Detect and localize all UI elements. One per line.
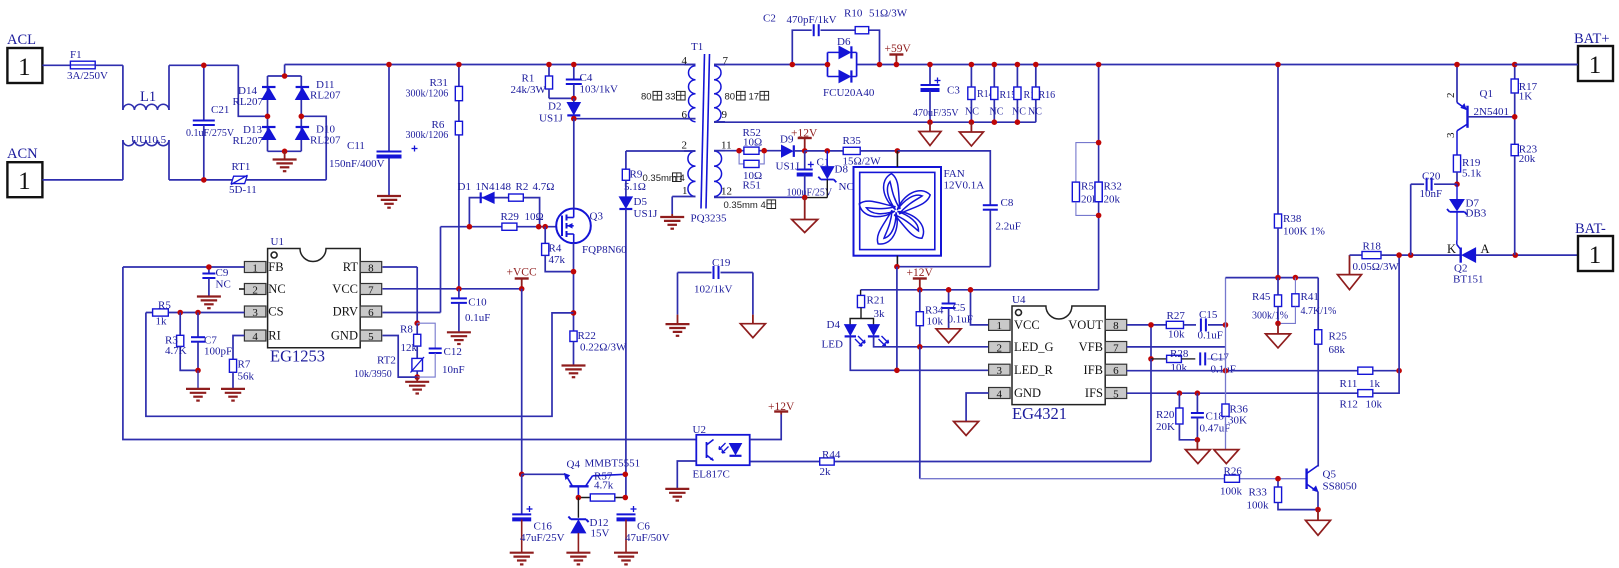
junction FAN top	[895, 148, 901, 154]
capacitor C4 103/1kV	[566, 65, 618, 99]
svg-text:C16: C16	[534, 521, 553, 533]
transformer T1 secondary winding	[714, 65, 725, 122]
svg-text:R10: R10	[844, 8, 863, 20]
diode D6 FCU20A40	[823, 36, 875, 99]
svg-text:0.1uF: 0.1uF	[948, 314, 973, 326]
capacitor C15 0.1uF	[1198, 309, 1226, 342]
ground C1	[792, 198, 818, 233]
svg-text:3: 3	[252, 307, 258, 319]
wire +12V rail	[861, 289, 1099, 291]
diode D7 DB3	[1447, 184, 1487, 240]
svg-text:10k: 10k	[927, 316, 944, 328]
svg-text:Q5: Q5	[1323, 469, 1337, 481]
svg-text:RL207: RL207	[310, 90, 341, 102]
junction R13 bottom	[1015, 119, 1021, 125]
wire GND pin5 to node B	[383, 336, 418, 378]
pin 4 RI	[244, 329, 280, 343]
svg-text:10nF: 10nF	[1420, 188, 1443, 200]
node ACL label	[7, 32, 36, 48]
diode D2 US1J	[539, 98, 580, 124]
svg-text:R5: R5	[158, 300, 171, 312]
diode D4 LED pair	[822, 319, 889, 351]
wire LED red cathode	[850, 336, 988, 370]
diode D1 1N4148	[458, 181, 540, 227]
svg-text:R44: R44	[822, 449, 841, 461]
node BAT- label	[1575, 221, 1606, 237]
value label 80 strands 33 turns	[641, 91, 685, 102]
wire fuse to L1	[95, 65, 123, 110]
junction R14 bottom	[969, 119, 975, 125]
svg-text:FQP8N60: FQP8N60	[582, 244, 627, 256]
svg-text:+VCC: +VCC	[507, 267, 537, 279]
svg-text:R4: R4	[549, 243, 562, 255]
wire R35 to C8	[897, 151, 990, 205]
wire Q5 emitter to ground	[1317, 492, 1319, 510]
svg-text:12V0.1A: 12V0.1A	[944, 180, 985, 192]
junction Q5 emitter node	[1315, 507, 1321, 513]
svg-text:EG1253: EG1253	[270, 347, 325, 366]
svg-text:4: 4	[997, 388, 1003, 400]
svg-text:10Ω: 10Ω	[743, 137, 762, 149]
svg-text:C4: C4	[580, 72, 593, 84]
resistor R52 10	[743, 127, 763, 154]
pin 3 LED_R	[989, 363, 1054, 377]
capacitor C2 470pF/1kV snubber	[763, 13, 880, 65]
junction R3 C7 bottom	[195, 368, 201, 374]
junction R14 top	[969, 62, 975, 68]
svg-text:24k/3W: 24k/3W	[511, 84, 547, 96]
svg-text:C17: C17	[1211, 352, 1230, 364]
resistor R51 10 parallel	[739, 151, 764, 192]
wire CS net	[146, 312, 245, 314]
svg-text:10nF: 10nF	[442, 364, 465, 376]
transistor Q4 MMBT5551	[564, 458, 640, 498]
junction Q4 base node	[519, 472, 525, 478]
ground U4 GND	[954, 422, 979, 436]
wire FAN bottom	[897, 256, 990, 267]
resistor R8 12k	[400, 323, 421, 354]
svg-text:R9: R9	[630, 169, 643, 181]
resistor R19 5.1k	[1453, 155, 1481, 184]
junction LED_R FAN join	[894, 368, 900, 374]
svg-text:80: 80	[641, 92, 652, 103]
svg-text:5: 5	[368, 331, 374, 343]
resistor R2 4.7	[509, 181, 555, 201]
svg-text:DB3: DB3	[1466, 208, 1487, 220]
svg-text:R21: R21	[867, 295, 885, 307]
svg-text:C20: C20	[1422, 171, 1441, 183]
pin 4	[682, 55, 688, 67]
svg-text:1: 1	[252, 262, 258, 274]
wire secondary return	[714, 121, 1036, 123]
wire T1 pin12 line	[714, 196, 827, 198]
capacitor C3 470uF/35V	[913, 65, 960, 123]
resistor R35 15/2W	[843, 135, 898, 168]
ground C9	[197, 297, 221, 309]
svg-text:1: 1	[18, 54, 31, 81]
wire opto collector to +12V	[750, 415, 782, 440]
pin 5 IFS	[1085, 386, 1127, 400]
svg-text:6: 6	[368, 307, 374, 319]
svg-text:0.35mm 4: 0.35mm 4	[724, 200, 766, 211]
resistor R23 20k	[1511, 144, 1538, 256]
svg-text:4: 4	[252, 331, 258, 343]
svg-text:BAT-: BAT-	[1575, 221, 1606, 237]
svg-text:SS8050: SS8050	[1323, 481, 1358, 493]
wire Q5 base net	[920, 478, 1307, 480]
svg-text:9: 9	[722, 109, 728, 121]
capacitor C11	[329, 65, 418, 197]
svg-text:56k: 56k	[238, 371, 255, 383]
junction +12V tick	[917, 287, 923, 293]
capacitor C6 47uF/50V	[617, 506, 670, 553]
junction R11 rail	[1396, 252, 1402, 258]
svg-text:D6: D6	[837, 36, 851, 48]
svg-text:4.7k: 4.7k	[594, 480, 614, 492]
junction node A	[414, 320, 420, 326]
junction R57 right	[623, 495, 629, 501]
svg-text:6: 6	[682, 109, 688, 121]
svg-text:R25: R25	[1329, 331, 1348, 343]
wire Q3 source chain	[573, 243, 575, 331]
junction C5 top	[946, 287, 952, 293]
resistor R25 68k	[1315, 330, 1348, 464]
junction R3 top	[177, 310, 183, 316]
pin 7 VCC	[332, 282, 381, 296]
wire Q5 collector	[1317, 464, 1319, 467]
junction C2 left	[790, 62, 796, 68]
wire opto cathode to ground	[677, 461, 696, 489]
svg-text:10Ω: 10Ω	[525, 211, 544, 223]
svg-text:1k: 1k	[1369, 378, 1381, 390]
junction R16 top	[1033, 62, 1039, 68]
svg-text:R26: R26	[1224, 466, 1243, 478]
junction R23 rail	[1513, 252, 1519, 258]
svg-text:R2: R2	[516, 181, 529, 193]
pin 1 VCC	[989, 318, 1040, 332]
svg-text:3: 3	[1445, 132, 1457, 138]
svg-text:1: 1	[997, 320, 1003, 332]
svg-text:C8: C8	[1001, 197, 1014, 209]
svg-text:VOUT: VOUT	[1068, 318, 1103, 332]
ground C10	[447, 332, 471, 344]
svg-text:LED_G: LED_G	[1014, 340, 1054, 354]
svg-text:R28: R28	[1170, 348, 1189, 360]
svg-text:R51: R51	[743, 180, 761, 192]
diode D13 RL207	[233, 124, 276, 147]
svg-text:R45: R45	[1252, 291, 1271, 303]
svg-text:MMBT5551: MMBT5551	[585, 458, 641, 470]
ground R18 left	[1338, 255, 1362, 290]
capacitor C12 10nF	[417, 323, 464, 377]
resistor R17 1K	[1511, 65, 1538, 145]
svg-text:VCC: VCC	[332, 282, 358, 296]
svg-text:1: 1	[1589, 52, 1602, 79]
junction R34 bottom	[917, 344, 923, 350]
junction VCC riser	[968, 287, 974, 293]
ground Q5	[1306, 510, 1331, 536]
pin 9	[722, 109, 728, 121]
diode D12 15V zener	[568, 498, 609, 553]
wire LED green cathode	[874, 336, 989, 346]
svg-text:ACL: ACL	[7, 32, 36, 48]
node ACN label	[7, 146, 38, 162]
junction C1 bottom	[802, 195, 808, 201]
svg-text:LED_R: LED_R	[1014, 363, 1054, 377]
svg-text:300k/1%: 300k/1%	[1252, 311, 1288, 322]
svg-text:0.1uF: 0.1uF	[1198, 330, 1223, 342]
svg-text:3k: 3k	[874, 308, 886, 320]
transformer T1 core	[691, 41, 710, 209]
junction C4 top	[571, 62, 577, 68]
wire LED_G to Q5 base drop	[919, 347, 921, 479]
ground C3	[919, 122, 941, 145]
resistor R29 10	[501, 211, 544, 230]
wire GND pin4 to ground	[966, 393, 989, 422]
junction C18 bottom	[1195, 437, 1201, 443]
junction bridge top	[282, 73, 288, 79]
svg-text:2: 2	[1445, 93, 1457, 99]
svg-text:RL207: RL207	[233, 96, 264, 108]
resistor R33 100k	[1247, 479, 1319, 512]
wire R11 to BAT- rail	[1398, 255, 1400, 371]
junction R28 left	[1148, 356, 1154, 362]
pin 8 VOUT	[1068, 318, 1126, 332]
svg-text:BT151: BT151	[1453, 274, 1484, 286]
wire FB net	[123, 266, 244, 268]
wire RT net	[383, 267, 418, 323]
ground C11	[377, 196, 401, 208]
ground T1 pin1	[660, 214, 684, 229]
svg-text:12: 12	[721, 186, 732, 198]
ground R22	[562, 366, 586, 378]
ground C6	[614, 553, 638, 565]
svg-text:5.1k: 5.1k	[1462, 168, 1482, 180]
junction R29 right	[536, 224, 542, 230]
wire IFB row	[1127, 370, 1358, 372]
svg-text:3: 3	[997, 365, 1003, 377]
ground C16	[510, 553, 534, 565]
pin 3 CS	[244, 305, 283, 319]
junction D6 left	[825, 62, 831, 68]
svg-text:47uF/25V: 47uF/25V	[520, 532, 565, 544]
wire CS sense line A	[146, 313, 574, 417]
svg-text:103/1kV: 103/1kV	[580, 84, 619, 96]
svg-text:PQ3235: PQ3235	[691, 213, 728, 225]
svg-text:R16: R16	[1039, 90, 1056, 101]
svg-text:IFS: IFS	[1085, 386, 1103, 400]
svg-text:5: 5	[1113, 388, 1119, 400]
op-amp U4 EG4321 body	[1012, 294, 1105, 423]
ground R14	[959, 122, 983, 146]
resistor R45 300k/1%	[1252, 278, 1288, 324]
wire gate net	[441, 227, 563, 313]
wire C20 to BAT- rail	[1410, 184, 1412, 255]
svg-text:5D-11: 5D-11	[229, 184, 257, 196]
svg-text:11: 11	[721, 140, 732, 152]
svg-text:VCC: VCC	[1014, 318, 1040, 332]
svg-text:R7: R7	[238, 359, 251, 371]
pin 2 LED_G	[989, 340, 1054, 354]
svg-text:IFB: IFB	[1084, 363, 1103, 377]
junction VOUT tap	[1148, 322, 1154, 328]
svg-text:3A/250V: 3A/250V	[67, 70, 108, 82]
resistor R22 0.22	[570, 330, 627, 366]
junction R33 top	[1275, 476, 1281, 482]
junction IFB R36	[1223, 368, 1229, 374]
capacitor C20 10nF	[1411, 171, 1457, 201]
svg-text:17: 17	[749, 92, 760, 103]
svg-text:0.1uF: 0.1uF	[465, 312, 490, 324]
svg-text:ACN: ACN	[7, 146, 38, 162]
svg-text:2N5401: 2N5401	[1474, 106, 1509, 118]
svg-text:1k: 1k	[156, 316, 168, 328]
svg-text:100k: 100k	[1220, 486, 1243, 498]
svg-text:EL817C: EL817C	[693, 469, 730, 481]
wire R44 net	[750, 461, 1151, 463]
svg-text:NC: NC	[965, 107, 979, 118]
junction C9 top	[206, 264, 212, 270]
junction R19 bottom	[1454, 181, 1460, 187]
svg-text:RI: RI	[268, 329, 281, 343]
capacitor C18 0.47uF	[1191, 393, 1230, 440]
junction R13 top	[1015, 62, 1021, 68]
diode D10 RL207	[296, 124, 341, 147]
svg-text:10k: 10k	[1168, 329, 1185, 341]
svg-text:GND: GND	[1014, 386, 1041, 400]
junction Q4 collector	[623, 472, 629, 478]
capacitor C5 0.1uF	[942, 290, 973, 329]
pin 6	[682, 109, 688, 121]
svg-text:US1J: US1J	[634, 208, 659, 220]
connector BAT+	[1578, 46, 1613, 81]
svg-text:GND: GND	[331, 329, 358, 343]
svg-text:R27: R27	[1167, 310, 1186, 322]
ground D12	[566, 553, 590, 565]
junction C1 top	[802, 148, 808, 154]
capacitor C7 100pF	[191, 313, 232, 371]
bridge rectifier frame	[268, 65, 302, 152]
wire ACL to fuse	[42, 64, 70, 66]
svg-text:470pF/1kV: 470pF/1kV	[787, 14, 837, 26]
wire L1 to bridge	[169, 65, 268, 116]
junction +59V	[894, 62, 900, 68]
resistor R11 1k	[1340, 367, 1400, 390]
wire T1 pin11 line	[714, 150, 782, 152]
wire VFB row	[1127, 346, 1226, 348]
svg-text:RT1: RT1	[232, 161, 251, 173]
svg-text:LED: LED	[822, 339, 843, 351]
junction R11 right	[1396, 368, 1402, 374]
svg-text:300k/1206: 300k/1206	[406, 130, 449, 141]
power +VCC	[507, 267, 537, 289]
wire BAT+ rail end	[1515, 64, 1578, 66]
pin 6 DRV	[333, 305, 382, 319]
power +12V main	[907, 267, 934, 290]
svg-text:U2: U2	[693, 424, 706, 436]
svg-text:R12: R12	[1340, 399, 1358, 411]
resistor R18 0.05/3W	[1353, 241, 1400, 274]
resistor R3 4.7K	[165, 313, 198, 371]
scr Q2 BT151	[1447, 241, 1490, 286]
transistor Q1 2N5401	[1445, 65, 1515, 156]
wire R50 R32 column	[1098, 65, 1100, 290]
junction C21 top	[201, 63, 207, 69]
svg-text:8: 8	[368, 262, 374, 274]
diode D14 RL207	[233, 85, 276, 108]
junction C3 top	[927, 62, 933, 68]
svg-text:R1: R1	[522, 73, 535, 85]
ground R20 C18	[1185, 440, 1210, 464]
capacitor C1 100uF/25V	[787, 151, 833, 199]
transformer T1 output winding	[714, 151, 725, 198]
junction bridge bottom	[282, 149, 288, 155]
junction C7 top	[195, 310, 201, 316]
svg-text:47k: 47k	[549, 254, 566, 266]
capacitor C21	[186, 65, 235, 180]
svg-text:D4: D4	[827, 319, 841, 331]
wire +VCC down to Q4	[521, 289, 523, 475]
svg-text:1: 1	[1589, 242, 1602, 269]
junction R57 left	[576, 495, 582, 501]
svg-text:6: 6	[1113, 365, 1119, 377]
resistor R21 3k	[857, 290, 885, 320]
svg-text:D2: D2	[548, 101, 561, 113]
svg-text:R33: R33	[1249, 487, 1268, 499]
svg-text:20k: 20k	[1104, 194, 1121, 206]
svg-text:NC: NC	[1012, 107, 1026, 118]
svg-text:10k: 10k	[1366, 399, 1383, 411]
wire +59V rail	[714, 64, 1578, 66]
diode D11 RL207	[296, 79, 341, 102]
junction R17 rail	[1512, 62, 1518, 68]
junction C4 bottom	[571, 96, 577, 102]
wire D2 to T1 pin6	[574, 118, 696, 120]
value label 0.35mm 4 turns right	[724, 200, 776, 211]
junction D8 top	[825, 148, 831, 154]
svg-text:R20: R20	[1156, 409, 1175, 421]
svg-text:0.05Ω/3W: 0.05Ω/3W	[1353, 261, 1400, 273]
junction FAN bottom	[894, 264, 900, 270]
svg-text:33: 33	[665, 92, 676, 103]
transistor Q3 FQP8N60 mosfet	[556, 209, 627, 257]
wire VCC pin1 riser	[971, 290, 989, 325]
capacitor C8 2.2uF	[983, 197, 1021, 267]
resistor R7 56k	[229, 336, 254, 389]
svg-text:DRV: DRV	[333, 305, 358, 319]
pin 6 IFB	[1084, 363, 1127, 377]
svg-text:7: 7	[1113, 342, 1119, 354]
svg-text:7: 7	[368, 284, 374, 296]
svg-text:VFB: VFB	[1079, 340, 1103, 354]
svg-text:30K: 30K	[1228, 415, 1247, 427]
capacitor C19 102/1kV	[678, 257, 753, 315]
junction +VCC	[519, 286, 525, 292]
svg-text:FCU20A40: FCU20A40	[823, 87, 875, 99]
svg-text:10k: 10k	[1171, 362, 1188, 374]
diode D9 US1J	[776, 134, 805, 173]
svg-text:2: 2	[252, 284, 258, 296]
wire VCC net	[383, 288, 522, 290]
wire RT1 to bridge	[246, 116, 326, 180]
svg-text:R11: R11	[1340, 378, 1358, 390]
svg-text:US1J: US1J	[539, 113, 564, 125]
junction R41 top	[1293, 275, 1299, 281]
resistor R50 20k	[1072, 143, 1100, 216]
fuse F1	[67, 49, 108, 82]
svg-text:U4: U4	[1012, 294, 1026, 306]
svg-text:R31: R31	[430, 77, 448, 89]
